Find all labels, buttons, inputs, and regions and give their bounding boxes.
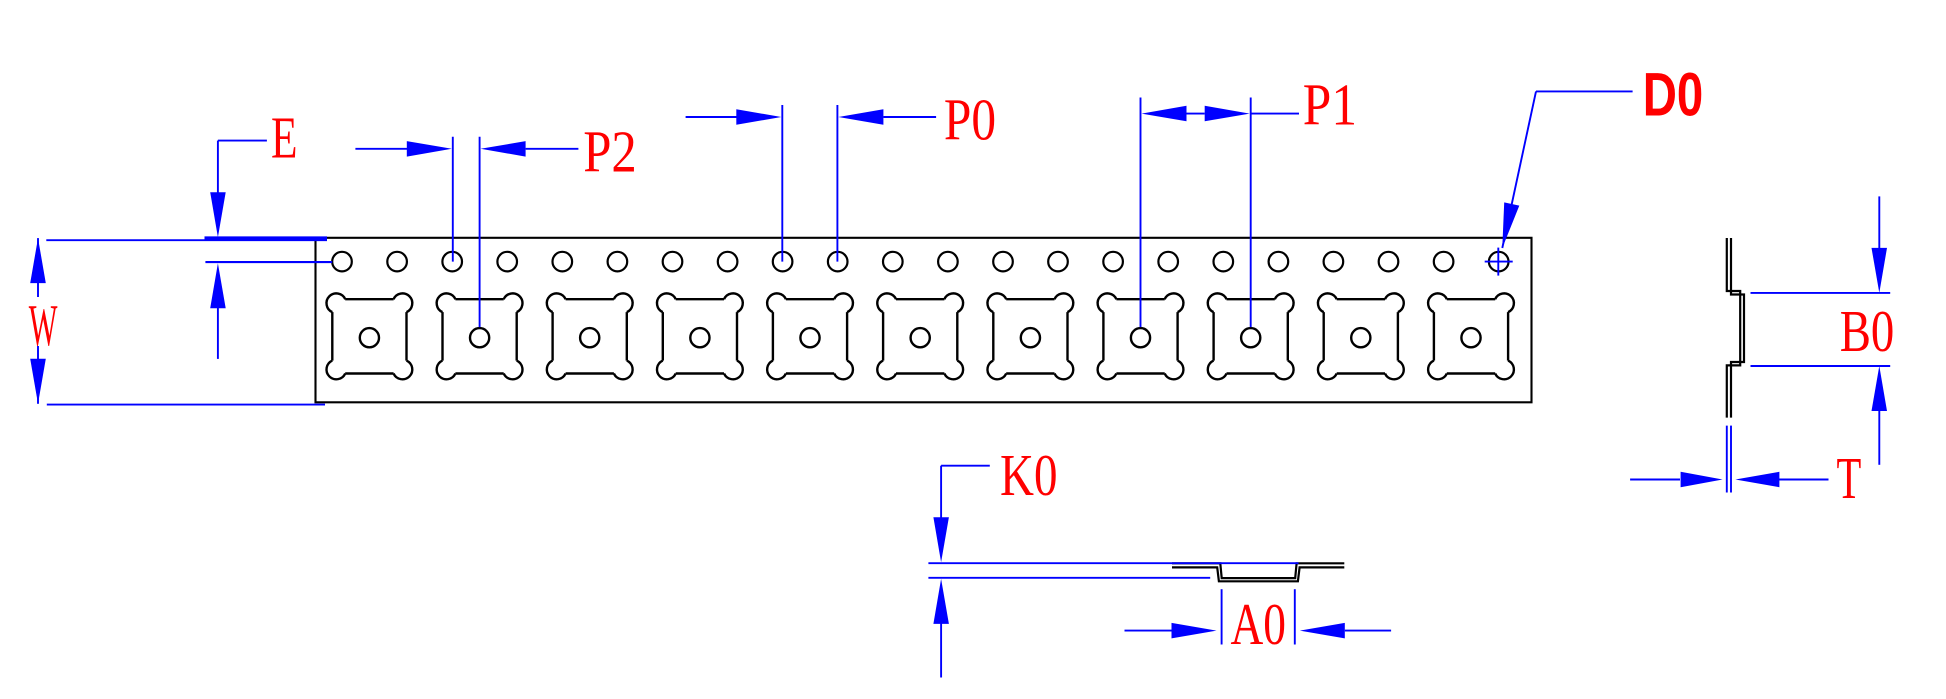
svg-text:E: E [271, 105, 298, 171]
svg-text:A0: A0 [1231, 591, 1287, 657]
svg-text:D0: D0 [1643, 61, 1704, 129]
svg-text:P0: P0 [944, 87, 996, 153]
svg-text:K0: K0 [1000, 442, 1058, 508]
svg-text:P2: P2 [583, 119, 637, 185]
svg-text:W: W [29, 292, 58, 358]
svg-text:T: T [1837, 445, 1862, 511]
svg-text:B0: B0 [1840, 298, 1895, 364]
svg-text:P1: P1 [1303, 72, 1357, 138]
